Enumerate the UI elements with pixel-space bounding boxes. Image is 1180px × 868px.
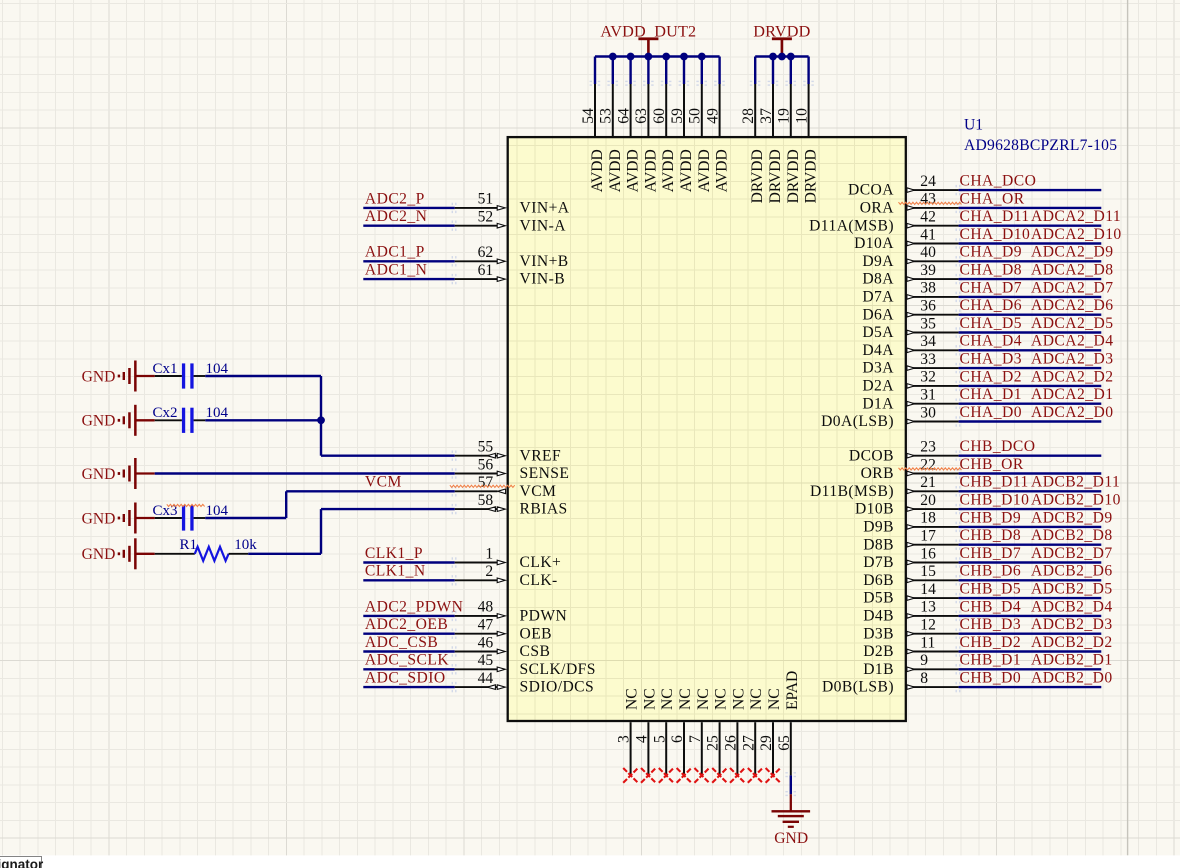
net label CHA_OR <box>960 190 1025 207</box>
svg-text:21: 21 <box>920 474 936 491</box>
svg-text:NC: NC <box>713 688 730 710</box>
svg-text:DCOB: DCOB <box>849 447 894 464</box>
svg-text:ADC_CSB: ADC_CSB <box>365 634 438 651</box>
svg-text:AD9628BCPZRL7-105: AD9628BCPZRL7-105 <box>964 137 1117 154</box>
net label ADC1_P <box>365 244 425 261</box>
pin 41 D10A <box>854 226 959 252</box>
svg-text:58: 58 <box>478 492 494 509</box>
compile-mask squiggle pin 43 <box>899 202 962 204</box>
svg-text:CHA_DCO: CHA_DCO <box>960 173 1037 190</box>
svg-text:16: 16 <box>920 545 936 562</box>
power port DRVDD <box>753 23 810 57</box>
svg-text:45: 45 <box>478 652 494 669</box>
svg-text:PDWN: PDWN <box>520 608 568 625</box>
svg-text:D0B(LSB): D0B(LSB) <box>822 679 894 696</box>
svg-text:ADC2_PDWN: ADC2_PDWN <box>365 598 463 615</box>
pin 4 NC (bottom) <box>634 688 659 775</box>
net label ADCB2_D9 <box>1031 509 1113 526</box>
svg-text:ADCA2_D2: ADCA2_D2 <box>1031 368 1113 385</box>
svg-text:47: 47 <box>478 617 494 634</box>
wire net CHB_D2 <box>956 646 1102 656</box>
svg-text:18: 18 <box>920 510 936 527</box>
pin 32 D2A <box>862 369 958 395</box>
wire net ADC1_N <box>363 274 456 284</box>
svg-text:59: 59 <box>669 108 686 124</box>
svg-text:3: 3 <box>616 735 633 743</box>
wire net CHB_D6 <box>956 575 1102 585</box>
svg-text:ADCB2_D3: ADCB2_D3 <box>1031 616 1113 633</box>
svg-text:CHA_D6: CHA_D6 <box>960 297 1022 314</box>
svg-text:CHB_D5: CHB_D5 <box>960 581 1022 598</box>
svg-text:VIN-B: VIN-B <box>520 271 566 288</box>
net label ADC2_P <box>365 190 425 207</box>
wire EPAD to GND <box>785 772 796 796</box>
svg-text:D8B: D8B <box>863 536 894 553</box>
net label ADCB2_D2 <box>1031 634 1113 651</box>
wire net ADC2_OEB <box>363 629 456 639</box>
svg-text:7: 7 <box>687 735 704 743</box>
svg-text:D5B: D5B <box>863 590 894 607</box>
wire net ADC_CSB <box>363 646 456 656</box>
resistor R1 10k <box>155 537 258 561</box>
svg-text:GND: GND <box>82 546 116 563</box>
no-connect cross pin 7 <box>694 768 709 783</box>
compile-mask squiggle pin 22 <box>899 468 962 470</box>
pin 20 D10B <box>855 492 959 518</box>
pin 29 NC (bottom) <box>758 688 783 775</box>
net label CHB_D3 <box>960 616 1022 633</box>
svg-text:35: 35 <box>920 315 936 332</box>
svg-text:NC: NC <box>748 688 765 710</box>
wire net CHB_D3 <box>956 629 1102 639</box>
pin 27 NC (bottom) <box>740 688 765 775</box>
net label CHB_D9 <box>960 509 1022 526</box>
svg-text:ADCB2_D7: ADCB2_D7 <box>1031 545 1113 562</box>
net label ADCB2_D4 <box>1031 598 1113 615</box>
svg-text:1: 1 <box>485 545 493 562</box>
svg-text:23: 23 <box>920 439 936 456</box>
wire Cx2 to junction <box>205 419 321 421</box>
wire net ADC2_N <box>363 221 456 231</box>
compile-mask squiggle VCM pin 57 <box>450 485 515 487</box>
svg-text:14: 14 <box>920 581 936 598</box>
wire net CHA_D5 <box>956 327 1102 337</box>
net label ADC_SCLK <box>365 652 449 669</box>
svg-text:25: 25 <box>705 735 722 751</box>
no-connect cross pin 25 <box>712 768 727 783</box>
svg-text:6: 6 <box>669 735 686 743</box>
svg-text:ADCA2_D9: ADCA2_D9 <box>1031 244 1113 261</box>
net label CHA_D11 <box>960 208 1030 225</box>
net label ADCA2_D4 <box>1031 333 1113 350</box>
svg-text:61: 61 <box>478 262 494 279</box>
pin 16 D7B <box>863 545 958 571</box>
pin 59 AVDD (top) <box>669 81 695 193</box>
wire net ADC1_P <box>363 256 456 266</box>
wire R1 to pin 58 RBIAS <box>248 504 456 554</box>
net label CHB_D5 <box>960 581 1022 598</box>
svg-text:AVDD: AVDD <box>714 149 731 192</box>
svg-text:DRVDD: DRVDD <box>803 149 820 203</box>
pin 37 DRVDD (top) <box>758 81 784 204</box>
net label ADCB2_D10 <box>1031 492 1121 509</box>
pin 6 NC (bottom) <box>669 688 694 775</box>
svg-text:GND: GND <box>82 368 116 385</box>
svg-text:50: 50 <box>687 108 704 124</box>
svg-text:27: 27 <box>740 735 757 751</box>
net label CHA_D2 <box>960 368 1022 385</box>
wire net ADC2_P <box>363 203 456 213</box>
net label CHA_D6 <box>960 297 1022 314</box>
svg-text:32: 32 <box>920 369 936 386</box>
svg-text:60: 60 <box>651 108 668 124</box>
pin 31 D1A <box>862 387 958 413</box>
wire Cx3 to pin 57 VCM <box>205 486 456 518</box>
svg-text:26: 26 <box>723 735 740 751</box>
power port GND (left) <box>82 361 155 392</box>
svg-text:GND: GND <box>82 413 116 430</box>
wire net CHA_D0 <box>956 416 1102 426</box>
svg-text:37: 37 <box>758 108 775 124</box>
pin 56 SENSE <box>455 456 570 482</box>
svg-text:CHB_OR: CHB_OR <box>960 456 1024 473</box>
pin 63 AVDD (top) <box>633 81 659 193</box>
wire net CHA_D2 <box>956 381 1102 391</box>
svg-text:ADCB2_D4: ADCB2_D4 <box>1031 598 1113 615</box>
net label ADCA2_D9 <box>1031 244 1113 261</box>
wire net CHB_DCO <box>956 451 1102 461</box>
svg-text:ADC1_P: ADC1_P <box>365 244 425 261</box>
pin 50 AVDD (top) <box>687 81 713 193</box>
net label ADCB2_D6 <box>1031 563 1113 580</box>
svg-text:48: 48 <box>478 599 494 616</box>
svg-text:8: 8 <box>920 670 928 687</box>
svg-text:34: 34 <box>920 333 936 350</box>
svg-text:11: 11 <box>920 634 935 651</box>
svg-text:39: 39 <box>920 262 936 279</box>
net label CHB_D0 <box>960 670 1022 687</box>
svg-text:OEB: OEB <box>520 625 553 642</box>
net label ADCB2_D5 <box>1031 581 1113 598</box>
svg-text:NC: NC <box>730 688 747 710</box>
net label CHB_D1 <box>960 652 1022 669</box>
svg-text:30: 30 <box>920 404 936 421</box>
svg-text:17: 17 <box>920 528 936 545</box>
net label CHA_DCO <box>960 173 1037 190</box>
net label CHB_D7 <box>960 545 1022 562</box>
svg-text:D3A: D3A <box>862 360 894 377</box>
svg-text:CHA_D3: CHA_D3 <box>960 351 1022 368</box>
pin 48 PDWN <box>455 599 568 625</box>
wire net CHA_OR <box>956 203 1102 213</box>
pin 57 VCM <box>455 474 557 500</box>
svg-text:NC: NC <box>641 688 658 710</box>
svg-text:DCOA: DCOA <box>848 182 894 199</box>
net label CHA_D1 <box>960 386 1022 403</box>
svg-text:42: 42 <box>920 209 936 226</box>
svg-text:CHB_DCO: CHB_DCO <box>960 438 1036 455</box>
svg-text:38: 38 <box>920 280 936 297</box>
svg-text:D1B: D1B <box>863 661 894 678</box>
svg-text:36: 36 <box>920 298 936 315</box>
svg-text:D11A(MSB): D11A(MSB) <box>809 217 894 234</box>
net label CHB_D11 <box>960 474 1029 491</box>
svg-text:D10B: D10B <box>855 501 894 518</box>
net label CHA_D3 <box>960 351 1022 368</box>
net label ADCA2_D11 <box>1031 208 1121 225</box>
wire net CHA_D7 <box>956 292 1102 302</box>
svg-text:54: 54 <box>580 108 597 124</box>
net label ADC_SDIO <box>365 670 446 687</box>
svg-text:AVDD: AVDD <box>589 149 606 192</box>
pin 12 D3B <box>863 617 958 643</box>
svg-text:4: 4 <box>634 735 651 743</box>
svg-text:104: 104 <box>206 361 229 377</box>
svg-text:63: 63 <box>633 108 650 124</box>
pin 38 D7A <box>862 280 958 306</box>
net label ADCB2_D7 <box>1031 545 1113 562</box>
svg-text:CHA_D9: CHA_D9 <box>960 244 1022 261</box>
svg-text:CHA_D1: CHA_D1 <box>960 386 1022 403</box>
pin 30 D0A(LSB) <box>821 404 959 430</box>
svg-text:NC: NC <box>766 688 783 710</box>
svg-text:44: 44 <box>478 670 494 687</box>
svg-text:ADCB2_D9: ADCB2_D9 <box>1031 509 1113 526</box>
pin 52 VIN-A <box>455 209 567 235</box>
wire net CHB_D4 <box>956 611 1102 621</box>
svg-text:D6B: D6B <box>863 572 894 589</box>
svg-text:CHB_D6: CHB_D6 <box>960 563 1022 580</box>
svg-text:SENSE: SENSE <box>520 465 570 482</box>
svg-text:RBIAS: RBIAS <box>520 501 568 518</box>
svg-text:NC: NC <box>677 688 694 710</box>
wire net CHB_D9 <box>956 522 1102 532</box>
svg-text:CLK-: CLK- <box>520 572 558 589</box>
svg-text:VIN+B: VIN+B <box>520 253 569 270</box>
svg-text:GND: GND <box>82 510 116 527</box>
svg-text:41: 41 <box>920 226 936 243</box>
svg-text:55: 55 <box>478 439 494 456</box>
wire net CHB_D5 <box>956 593 1102 603</box>
svg-text:5: 5 <box>651 735 668 743</box>
pin 28 DRVDD (top) <box>740 81 766 204</box>
pin 25 NC (bottom) <box>705 688 730 775</box>
net label ADC2_OEB <box>365 616 448 633</box>
svg-text:AVDD: AVDD <box>607 149 624 192</box>
net label ADCA2_D8 <box>1031 262 1113 279</box>
svg-text:ADCB2_D6: ADCB2_D6 <box>1031 563 1113 580</box>
net label CHB_D10 <box>960 492 1030 509</box>
pin 53 AVDD (top) <box>598 81 624 193</box>
part number AD9628BCPZRL7-105 <box>964 137 1117 154</box>
svg-text:VIN+A: VIN+A <box>520 200 570 217</box>
svg-text:CHB_D10: CHB_D10 <box>960 492 1030 509</box>
pin 24 DCOA <box>848 173 959 199</box>
wire net CHB_D11 <box>956 486 1102 496</box>
svg-text:SCLK/DFS: SCLK/DFS <box>520 661 596 678</box>
svg-text:56: 56 <box>478 456 494 473</box>
svg-text:9: 9 <box>920 652 928 669</box>
no-connect cross pin 6 <box>677 768 692 783</box>
svg-text:CHB_D4: CHB_D4 <box>960 598 1022 615</box>
svg-text:D3B: D3B <box>863 625 894 642</box>
svg-text:CHB_D1: CHB_D1 <box>960 652 1022 669</box>
net label CHB_D6 <box>960 563 1022 580</box>
no-connect cross pin 26 <box>730 768 745 783</box>
pin 34 D4A <box>862 333 958 359</box>
pin 13 D4B <box>863 599 958 625</box>
capacitor Cx1 104 <box>153 361 229 389</box>
svg-text:ADC1_N: ADC1_N <box>365 262 427 279</box>
pin 42 D11A(MSB) <box>809 209 959 235</box>
svg-text:31: 31 <box>920 387 936 404</box>
pin 8 D0B(LSB) <box>822 670 959 696</box>
svg-text:22: 22 <box>920 456 936 473</box>
svg-text:ADC2_P: ADC2_P <box>365 190 425 207</box>
svg-text:D4A: D4A <box>862 342 894 359</box>
svg-text:D11B(MSB): D11B(MSB) <box>810 483 894 500</box>
svg-text:53: 53 <box>598 108 615 124</box>
pin 62 VIN+B <box>455 244 569 270</box>
net label CHB_D8 <box>960 527 1022 544</box>
designator U1 <box>964 117 983 134</box>
svg-text:ADCA2_D3: ADCA2_D3 <box>1031 351 1113 368</box>
power port GND (left) <box>82 458 155 489</box>
net label ADCB2_D11 <box>1031 474 1120 491</box>
svg-text:Cx1: Cx1 <box>153 361 178 377</box>
junction dots DRVDD bus <box>769 53 795 61</box>
svg-text:ADCA2_D10: ADCA2_D10 <box>1031 226 1122 243</box>
wire net CLK1_N <box>363 575 456 585</box>
wire net CHA_D8 <box>956 274 1102 284</box>
net label VCM <box>365 474 402 491</box>
svg-text:CHA_D11: CHA_D11 <box>960 208 1030 225</box>
wire DRVDD bus <box>755 57 808 85</box>
svg-text:10: 10 <box>793 108 810 124</box>
net label CHA_D7 <box>960 279 1022 296</box>
pin 47 OEB <box>455 617 552 643</box>
net label CHB_D2 <box>960 634 1022 651</box>
wire net CHA_D3 <box>956 363 1102 373</box>
pin 61 VIN-B <box>455 262 565 288</box>
svg-text:CLK1_N: CLK1_N <box>365 563 426 580</box>
no-connect cross pin 3 <box>623 768 638 783</box>
svg-text:ADCA2_D5: ADCA2_D5 <box>1031 315 1113 332</box>
svg-text:43: 43 <box>920 191 936 208</box>
net label ADCB2_D1 <box>1031 652 1113 669</box>
svg-text:D4B: D4B <box>863 608 894 625</box>
svg-text:CHA_OR: CHA_OR <box>960 190 1025 207</box>
svg-text:40: 40 <box>920 244 936 261</box>
pin 22 ORB <box>861 456 959 482</box>
svg-text:VCM: VCM <box>365 474 402 491</box>
svg-text:CHA_D10: CHA_D10 <box>960 226 1031 243</box>
net label ADCA2_D6 <box>1031 297 1113 314</box>
wire net CHB_D8 <box>956 540 1102 550</box>
wire net CHA_D9 <box>956 256 1102 266</box>
net label CHA_D8 <box>960 262 1022 279</box>
svg-text:ADC2_OEB: ADC2_OEB <box>365 616 448 633</box>
svg-text:ADCA2_D6: ADCA2_D6 <box>1031 297 1113 314</box>
capacitor Cx3 104 <box>153 503 229 531</box>
svg-text:GND: GND <box>82 466 116 483</box>
wire net CHA_D6 <box>956 310 1102 320</box>
svg-text:CHA_D8: CHA_D8 <box>960 262 1022 279</box>
net label CHB_D4 <box>960 598 1022 615</box>
net label CLK1_N <box>365 563 426 580</box>
wire net CHB_D1 <box>956 664 1102 674</box>
pin 35 D5A <box>862 315 958 341</box>
svg-text:AVDD: AVDD <box>625 149 642 192</box>
pin 43 ORA <box>860 191 959 217</box>
wire net CHB_OR <box>956 468 1102 478</box>
svg-text:D5A: D5A <box>862 324 894 341</box>
svg-text:NC: NC <box>695 688 712 710</box>
svg-text:29: 29 <box>758 735 775 751</box>
net label CHA_D0 <box>960 404 1022 421</box>
net label ADCA2_D5 <box>1031 315 1113 332</box>
svg-text:CHA_D5: CHA_D5 <box>960 315 1022 332</box>
pin 19 DRVDD (top) <box>776 81 802 204</box>
svg-text:ADC2_N: ADC2_N <box>365 208 427 225</box>
net label CHA_D9 <box>960 244 1022 261</box>
net label ADCA2_D7 <box>1031 279 1113 296</box>
no-connect cross pin 29 <box>766 768 781 783</box>
no-connect cross pin 27 <box>748 768 763 783</box>
pin 45 SCLK/DFS <box>455 652 596 678</box>
svg-text:ADCA2_D7: ADCA2_D7 <box>1031 279 1113 296</box>
pin 58 RBIAS <box>455 492 568 518</box>
svg-text:104: 104 <box>206 503 229 519</box>
svg-text:ADCB2_D0: ADCB2_D0 <box>1031 670 1113 687</box>
pin 39 D8A <box>862 262 958 288</box>
wire net ADC_SCLK <box>363 664 456 674</box>
svg-text:ORA: ORA <box>860 200 895 217</box>
svg-text:CHA_D7: CHA_D7 <box>960 279 1022 296</box>
svg-text:CHA_D2: CHA_D2 <box>960 368 1022 385</box>
pin 23 DCOB <box>849 439 959 465</box>
svg-text:AVDD: AVDD <box>696 149 713 192</box>
power port GND (left) <box>82 538 155 569</box>
wire net CHB_D0 <box>956 682 1102 692</box>
pin 49 AVDD (top) <box>704 81 730 193</box>
svg-text:10k: 10k <box>234 537 257 553</box>
tooltip fragment "gnator" <box>0 856 42 868</box>
wire net CLK1_P <box>363 557 456 567</box>
net label CHA_D5 <box>960 315 1022 332</box>
svg-text:CLK1_P: CLK1_P <box>365 545 423 562</box>
pin 46 CSB <box>455 634 551 660</box>
svg-text:D2B: D2B <box>863 643 894 660</box>
svg-text:28: 28 <box>740 108 757 124</box>
power port GND (left) <box>82 503 155 534</box>
wire junction to pin 55 VREF <box>321 420 457 461</box>
svg-text:D10A: D10A <box>854 235 894 252</box>
svg-text:65: 65 <box>776 735 793 751</box>
svg-text:CHA_D4: CHA_D4 <box>960 333 1022 350</box>
svg-text:24: 24 <box>920 173 936 190</box>
power port AVDD_DUT2 <box>600 23 696 57</box>
pin 14 D5B <box>863 581 958 607</box>
svg-text:GND: GND <box>774 830 808 847</box>
svg-text:46: 46 <box>478 634 494 651</box>
svg-text:CHB_D9: CHB_D9 <box>960 509 1022 526</box>
svg-text:D9A: D9A <box>862 253 894 270</box>
svg-text:VREF: VREF <box>520 447 562 464</box>
pin 1 CLK+ <box>455 545 562 571</box>
svg-text:ADCB2_D2: ADCB2_D2 <box>1031 634 1113 651</box>
wire net CHA_D10 <box>956 238 1102 248</box>
